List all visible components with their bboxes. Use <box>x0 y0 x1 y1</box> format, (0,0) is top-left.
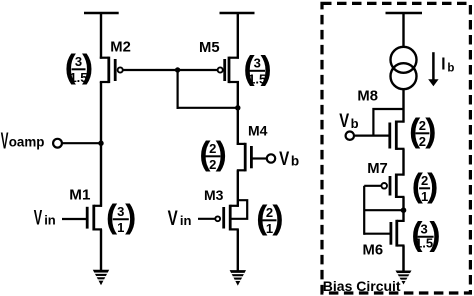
label Vin (left) <box>34 205 56 229</box>
svg-text:V: V <box>34 205 43 229</box>
wire gate M2 to gate M5 <box>123 69 218 71</box>
wire M2 drain to M1 drain <box>100 82 102 207</box>
svg-text:in: in <box>44 213 56 228</box>
wire rail to current source <box>402 13 404 48</box>
value label (2/1) for M7 <box>412 168 438 205</box>
VDD rail left <box>84 12 119 15</box>
svg-text:V: V <box>168 205 179 229</box>
wire rail to M2 source <box>100 13 102 59</box>
label Vin (middle) <box>168 205 192 229</box>
svg-text:M4: M4 <box>248 122 268 138</box>
wire rail to M5 source <box>237 13 239 59</box>
svg-text:Bias Circuit: Bias Circuit <box>323 278 401 294</box>
wire M3 source to ground <box>237 229 239 271</box>
svg-text:M6: M6 <box>363 242 384 258</box>
value label (2/1) for M3 <box>256 200 283 237</box>
wire M6 source to ground <box>402 246 405 272</box>
wire M1 source to ground <box>100 229 102 271</box>
svg-text:): ) <box>427 168 438 205</box>
junction dot gate node <box>175 67 180 72</box>
svg-text:): ) <box>82 49 93 86</box>
wire gate node down <box>177 70 179 109</box>
wire left vertical M7 gate to M6 gate <box>363 186 365 235</box>
svg-text:3: 3 <box>117 204 124 219</box>
wire to M5 drain node <box>177 107 238 109</box>
node Vb (M4) <box>267 154 275 162</box>
value label (3/1.5) for M5 <box>244 50 272 87</box>
value label (3/1.5) for M2 <box>65 49 93 86</box>
label Vb (bias) <box>339 110 358 131</box>
svg-text:b: b <box>351 116 359 131</box>
transistor M4 <box>237 143 252 172</box>
svg-text:): ) <box>429 216 440 253</box>
svg-text:oamp: oamp <box>9 135 45 150</box>
wire Voamp to left branch <box>62 142 101 144</box>
transistor M7 <box>381 174 404 199</box>
wire M7 source to M6 drain <box>402 197 404 222</box>
svg-text:V: V <box>279 147 289 169</box>
junction dot M5 drain <box>235 105 240 110</box>
svg-text:M7: M7 <box>367 161 388 177</box>
junction dot M7 source / M6 drain <box>401 207 407 213</box>
current arrow Ib <box>428 52 438 86</box>
wire M8 source to M7 drain <box>402 149 404 176</box>
ground (left) <box>93 270 109 286</box>
svg-text:b: b <box>447 63 454 75</box>
svg-text:3: 3 <box>420 221 427 236</box>
wire M7 gate left <box>364 185 381 187</box>
svg-text:M3: M3 <box>204 187 224 203</box>
svg-text:M1: M1 <box>69 187 91 204</box>
current source Ib <box>391 47 417 89</box>
transistor M2 <box>100 57 123 84</box>
node Vb (bias) <box>346 132 354 140</box>
svg-text:b: b <box>291 153 299 168</box>
bias circuit dashed box <box>322 3 470 293</box>
VDD rail bias <box>386 12 423 15</box>
wire current source to M8 drain <box>402 89 404 122</box>
svg-text:M5: M5 <box>199 40 220 56</box>
wire to M6 gate <box>364 233 391 235</box>
ground (bias) <box>396 271 412 285</box>
transistor M1 <box>87 205 102 231</box>
transistor M6 <box>391 220 405 247</box>
wire M5 drain down to M4 <box>237 82 239 145</box>
svg-text:): ) <box>125 199 136 236</box>
value label (2/2) for M8 <box>409 113 436 150</box>
transistor M8 <box>390 121 405 150</box>
ground (middle) <box>230 270 246 286</box>
label Voamp <box>1 128 45 153</box>
svg-text:): ) <box>261 50 272 87</box>
label Vb (M4) <box>279 147 299 169</box>
svg-text:M2: M2 <box>110 39 131 55</box>
value label (3/1.5) for M6 <box>411 216 440 253</box>
VDD rail right <box>220 12 255 15</box>
wire M4 gate to Vb terminal <box>251 157 266 159</box>
svg-text:M8: M8 <box>357 89 378 105</box>
svg-text:): ) <box>425 113 436 150</box>
transistor M3 <box>215 205 239 231</box>
svg-text:): ) <box>216 136 227 173</box>
wire gates to source node <box>364 209 403 211</box>
wire M3 bulk loop to drain <box>232 200 248 219</box>
svg-text:I: I <box>441 53 445 73</box>
wire M8 gate-drain loop <box>373 109 403 136</box>
svg-text:V: V <box>339 110 349 131</box>
wire Vin to M3 gate <box>198 218 215 220</box>
wire Vin to M1 gate <box>62 218 86 220</box>
wire Vb to M8 gate <box>354 135 389 137</box>
transistor M5 <box>218 57 239 84</box>
svg-text:1: 1 <box>117 220 124 235</box>
value label (3/1) for M1 <box>106 199 136 236</box>
wire M4 source to M3 drain <box>237 170 239 207</box>
value label (2/2) for M4 <box>199 136 226 173</box>
junction dot Voamp <box>98 141 103 146</box>
svg-text:in: in <box>180 213 192 228</box>
svg-text:V: V <box>1 128 9 153</box>
node Voamp <box>53 139 62 148</box>
svg-text:): ) <box>272 200 283 237</box>
label Ib <box>441 53 454 74</box>
